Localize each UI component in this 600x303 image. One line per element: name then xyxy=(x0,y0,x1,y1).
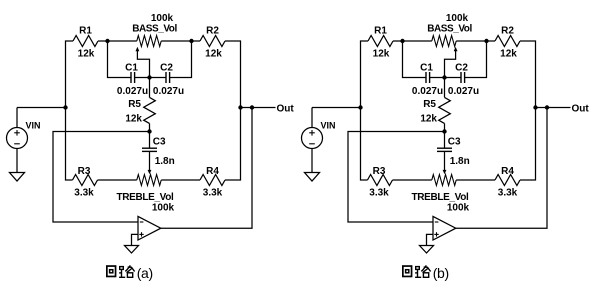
junction dot VIN node (circuit a) xyxy=(63,105,67,109)
wire: node FB down to C3 (circuit a) xyxy=(149,132,151,149)
wire: node IN1 to BASS_Vol (circuit a) xyxy=(108,40,137,42)
junction dot wiper node (circuit b) xyxy=(442,75,446,79)
potentiometer BASS_Vol (circuit a) xyxy=(137,36,161,47)
wire: R5 to node FB (circuit a) xyxy=(149,123,151,131)
svg-text:(a): (a) xyxy=(137,265,153,281)
svg-text:BASS_Vol: BASS_Vol xyxy=(427,24,472,35)
caption 回路(a) (circuit a) xyxy=(107,266,116,276)
ground below op-amp (circuit a) xyxy=(125,246,139,254)
wire: TREBLE_Vol to R4 (circuit a) xyxy=(161,179,200,181)
svg-text:0.027u: 0.027u xyxy=(153,86,184,97)
resistor R2 (circuit a) xyxy=(200,36,225,47)
junction dot node IN2 (circuit a) xyxy=(189,39,193,43)
resistor R1 (circuit a) xyxy=(73,36,98,47)
wire: output rail to op-amp output (circuit a) xyxy=(161,108,252,229)
wire: R1 to node IN1 (circuit a) xyxy=(98,40,108,42)
wiper arrow of TREBLE_Vol (circuit a) xyxy=(149,151,151,171)
capacitor C1 (circuit b) xyxy=(425,72,427,83)
potentiometer BASS_Vol (circuit b) xyxy=(432,36,456,47)
junction dot on right rail at Out (circuit b) xyxy=(533,105,537,109)
caption 回路(b) (circuit b) xyxy=(403,266,412,276)
svg-text:0.027u: 0.027u xyxy=(448,86,479,97)
junction dot node FB (circuit a) xyxy=(147,129,151,133)
wire: C2 up to node IN2 (circuit b) xyxy=(465,41,487,78)
junction dot output rail at Out (circuit a) xyxy=(250,105,254,109)
svg-text:12k: 12k xyxy=(500,48,517,59)
ground below VIN (circuit b) xyxy=(305,173,320,182)
wire: TREBLE_Vol to R4 (circuit b) xyxy=(456,179,495,181)
svg-text:C3: C3 xyxy=(153,137,166,148)
svg-text:R3: R3 xyxy=(373,166,386,177)
potentiometer TREBLE_Vol (circuit b) xyxy=(432,175,456,186)
resistor R3 (circuit a) xyxy=(73,175,98,186)
svg-text:R1: R1 xyxy=(374,25,387,36)
svg-text:C1: C1 xyxy=(420,63,433,74)
wire: node IN1 to BASS_Vol (circuit b) xyxy=(403,40,432,42)
wire: left rail (circuit b) xyxy=(361,41,369,180)
resistor R5 (circuit a) xyxy=(144,97,156,123)
svg-text:R4: R4 xyxy=(206,166,219,177)
op-amp U1 (circuit b) xyxy=(433,216,456,240)
svg-text:1.8n: 1.8n xyxy=(155,156,175,167)
ground below op-amp (circuit b) xyxy=(420,246,434,254)
svg-text:R4: R4 xyxy=(501,166,514,177)
junction dot wiper node (circuit a) xyxy=(147,75,151,79)
wire: C1 to C2 (circuit b) xyxy=(430,77,461,79)
svg-text:BASS_Vol: BASS_Vol xyxy=(132,24,177,35)
svg-text:Out: Out xyxy=(572,103,590,114)
wire: op-amp non-inverting input to ground (circuit b) xyxy=(427,234,434,245)
capacitor C2 (circuit b) xyxy=(460,72,462,83)
svg-text:12k: 12k xyxy=(78,48,95,59)
op-amp U1 (circuit a) xyxy=(138,216,161,240)
wire: R1 to node IN1 (circuit b) xyxy=(393,40,403,42)
svg-text:C3: C3 xyxy=(448,137,461,148)
capacitor C3 (circuit a) xyxy=(142,147,157,149)
capacitor C2 (circuit a) xyxy=(165,72,167,83)
svg-text:3.3k: 3.3k xyxy=(203,187,223,198)
voltage source VIN (circuit b) xyxy=(311,108,313,128)
wire: R5 to node FB (circuit b) xyxy=(444,123,446,131)
wire: right rail R2 to R4 (circuit a) xyxy=(225,41,241,180)
wire: wiper node to R5 (circuit a) xyxy=(149,78,151,98)
svg-text:100k: 100k xyxy=(447,202,470,213)
svg-text:12k: 12k xyxy=(373,48,390,59)
svg-text:Out: Out xyxy=(277,103,295,114)
svg-text:3.3k: 3.3k xyxy=(369,187,389,198)
resistor R3 (circuit b) xyxy=(368,175,393,186)
svg-text:R5: R5 xyxy=(423,99,436,110)
svg-text:R2: R2 xyxy=(501,25,514,36)
svg-text:R1: R1 xyxy=(79,25,92,36)
resistor R1 (circuit b) xyxy=(368,36,393,47)
wire: C1 to C2 (circuit a) xyxy=(135,77,166,79)
svg-text:C1: C1 xyxy=(125,63,138,74)
wire: BASS_Vol to node IN2 (circuit b) xyxy=(456,40,486,42)
svg-text:3.3k: 3.3k xyxy=(74,187,94,198)
svg-text:3.3k: 3.3k xyxy=(498,187,518,198)
resistor R4 (circuit b) xyxy=(495,175,520,186)
wire: VIN to left rail (circuit a) xyxy=(17,107,66,109)
junction dot node IN2 (circuit b) xyxy=(484,39,488,43)
wire: wiper node to R5 (circuit b) xyxy=(444,78,446,98)
voltage source VIN (circuit a) xyxy=(16,108,18,128)
svg-text:12k: 12k xyxy=(420,113,437,124)
wire: Out stub (circuit a) xyxy=(241,107,276,109)
svg-text:0.027u: 0.027u xyxy=(117,86,148,97)
svg-text:12k: 12k xyxy=(125,113,142,124)
wire: node IN1 down to C1 (circuit b) xyxy=(403,41,427,78)
wire: node IN2 to R2 (circuit a) xyxy=(192,40,201,42)
wire: op-amp non-inverting input to ground (circuit a) xyxy=(132,234,139,245)
wire: right rail R2 to R4 (circuit b) xyxy=(520,41,536,180)
capacitor C1 (circuit a) xyxy=(130,72,132,83)
wire: left rail (circuit a) xyxy=(66,41,74,180)
svg-text:R2: R2 xyxy=(206,25,219,36)
wiper arrow of BASS_Vol (circuit b) xyxy=(454,47,458,51)
wire: R3 to TREBLE_Vol (circuit a) xyxy=(98,179,137,181)
svg-text:12k: 12k xyxy=(205,48,222,59)
wire: output rail to op-amp output (circuit b) xyxy=(456,108,547,229)
junction dot node FB (circuit b) xyxy=(442,129,446,133)
wire: node IN1 down to C1 (circuit a) xyxy=(108,41,132,78)
svg-text:VIN: VIN xyxy=(321,121,336,131)
wiper arrow of TREBLE_Vol (circuit b) xyxy=(444,151,446,171)
wire: node IN2 to R2 (circuit b) xyxy=(487,40,496,42)
wire: Out stub (circuit b) xyxy=(536,107,571,109)
resistor R5 (circuit b) xyxy=(439,97,451,123)
wire: node FB down to C3 (circuit b) xyxy=(444,132,446,149)
wire: feedback from node FB to op-amp inverting input (circuit a) xyxy=(53,132,150,223)
wire: C2 up to node IN2 (circuit a) xyxy=(170,41,192,78)
potentiometer TREBLE_Vol (circuit a) xyxy=(137,175,161,186)
svg-text:R3: R3 xyxy=(78,166,91,177)
svg-text:C2: C2 xyxy=(455,63,468,74)
svg-text:100k: 100k xyxy=(152,202,175,213)
junction dot node IN1 (circuit a) xyxy=(105,39,109,43)
junction dot on right rail at Out (circuit a) xyxy=(238,105,242,109)
svg-text:(b): (b) xyxy=(433,265,449,281)
wiper arrow of BASS_Vol (circuit a) xyxy=(136,47,140,51)
svg-text:1.8n: 1.8n xyxy=(450,156,470,167)
wire: feedback from node FB to op-amp inverting input (circuit b) xyxy=(348,132,445,223)
junction dot output rail at Out (circuit b) xyxy=(545,105,549,109)
resistor R2 (circuit b) xyxy=(495,36,520,47)
wire: R3 to TREBLE_Vol (circuit b) xyxy=(393,179,432,181)
svg-text:VIN: VIN xyxy=(26,121,41,131)
resistor R4 (circuit a) xyxy=(200,175,225,186)
junction dot VIN node (circuit b) xyxy=(358,105,362,109)
wire: VIN to left rail (circuit b) xyxy=(312,107,361,109)
wire: BASS_Vol to node IN2 (circuit a) xyxy=(161,40,191,42)
ground below VIN (circuit a) xyxy=(10,173,25,182)
junction dot node IN1 (circuit b) xyxy=(400,39,404,43)
svg-text:R5: R5 xyxy=(128,99,141,110)
capacitor C3 (circuit b) xyxy=(437,147,452,149)
svg-text:C2: C2 xyxy=(160,63,173,74)
svg-text:0.027u: 0.027u xyxy=(412,86,443,97)
